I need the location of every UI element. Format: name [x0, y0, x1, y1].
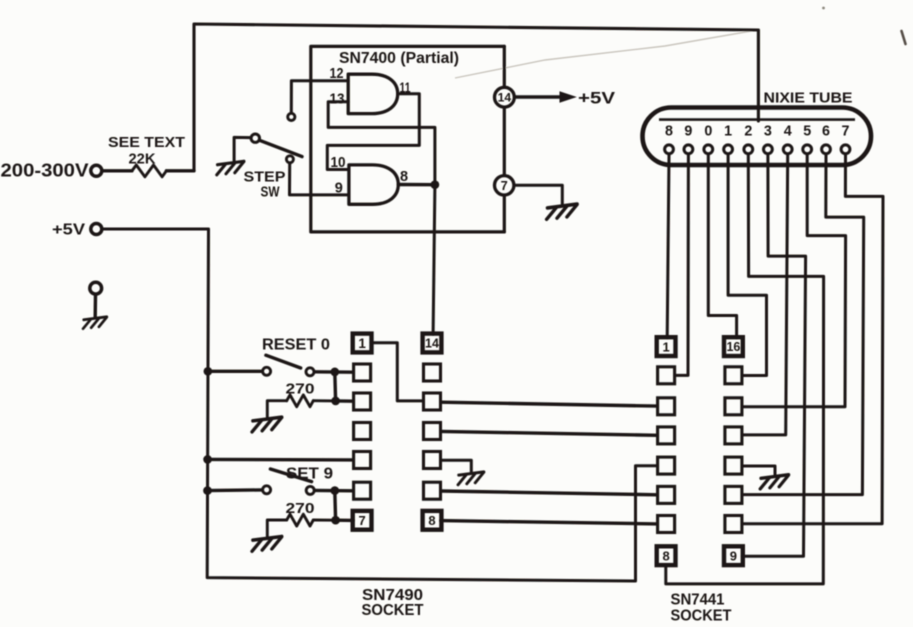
svg-text:NIXIE TUBE: NIXIE TUBE	[764, 90, 853, 107]
svg-text:14: 14	[425, 337, 439, 351]
svg-text:7: 7	[358, 513, 365, 528]
svg-text:14: 14	[498, 91, 512, 105]
svg-text:8: 8	[428, 513, 435, 528]
svg-text:RESET 0: RESET 0	[262, 337, 330, 354]
svg-text:3: 3	[764, 124, 772, 140]
svg-text:1: 1	[724, 124, 732, 140]
svg-text:13: 13	[330, 92, 345, 108]
svg-text:270: 270	[286, 500, 315, 517]
svg-text:8: 8	[665, 124, 673, 140]
svg-text:SN7441: SN7441	[671, 592, 725, 609]
svg-text:8: 8	[662, 548, 669, 563]
svg-text:2: 2	[744, 124, 752, 140]
svg-text:1: 1	[662, 339, 669, 354]
svg-text:8: 8	[400, 169, 408, 185]
svg-text:SEE TEXT: SEE TEXT	[108, 134, 185, 151]
svg-text:12: 12	[330, 66, 344, 82]
svg-text:10: 10	[331, 155, 346, 171]
svg-text:0: 0	[704, 124, 712, 140]
svg-text:7: 7	[501, 178, 508, 193]
svg-text:SW: SW	[261, 184, 281, 201]
svg-text:9: 9	[730, 548, 737, 563]
svg-text:16: 16	[726, 340, 740, 354]
svg-text:1: 1	[358, 336, 366, 351]
svg-text:270: 270	[286, 380, 315, 397]
svg-text:+5V: +5V	[52, 222, 85, 239]
svg-text:9: 9	[335, 181, 343, 197]
svg-text:SOCKET: SOCKET	[671, 608, 732, 625]
svg-text:200-300V: 200-300V	[1, 161, 89, 181]
svg-text:+5V: +5V	[578, 89, 616, 108]
svg-text:5: 5	[803, 124, 811, 140]
svg-text:9: 9	[684, 124, 692, 140]
svg-text:6: 6	[822, 124, 830, 140]
svg-text:22K: 22K	[129, 152, 157, 168]
svg-text:SN7400 (Partial): SN7400 (Partial)	[339, 50, 459, 67]
svg-text:11: 11	[400, 81, 411, 97]
svg-text:7: 7	[842, 124, 850, 140]
svg-text:4: 4	[784, 124, 792, 140]
svg-text:SOCKET: SOCKET	[362, 602, 424, 619]
